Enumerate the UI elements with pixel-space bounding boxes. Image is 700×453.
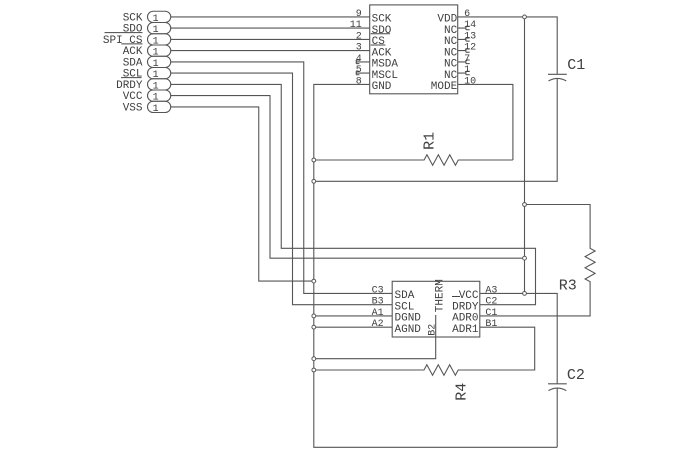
svg-text:NC: NC <box>444 36 458 48</box>
svg-text:NC: NC <box>444 47 458 59</box>
svg-text:SCL: SCL <box>395 301 415 313</box>
svg-text:MODE: MODE <box>431 81 458 93</box>
svg-text:10: 10 <box>464 76 476 87</box>
svg-text:NC: NC <box>444 25 458 37</box>
svg-text:13: 13 <box>464 31 476 42</box>
svg-text:GND: GND <box>372 81 392 93</box>
svg-text:C2: C2 <box>567 367 585 384</box>
svg-text:ACK: ACK <box>372 47 392 59</box>
svg-text:1: 1 <box>153 48 159 59</box>
svg-text:MSDA: MSDA <box>372 59 399 71</box>
svg-text:B3: B3 <box>372 297 384 308</box>
svg-text:C2: C2 <box>485 297 497 308</box>
svg-text:SCL: SCL <box>123 69 143 81</box>
svg-text:VSS: VSS <box>123 103 143 115</box>
svg-text:B1: B1 <box>485 319 497 330</box>
svg-text:6: 6 <box>464 9 470 20</box>
svg-text:A3: A3 <box>485 285 497 296</box>
svg-text:3: 3 <box>356 43 362 54</box>
svg-text:AGND: AGND <box>395 324 422 336</box>
svg-text:ADR0: ADR0 <box>452 313 478 325</box>
svg-text:R3: R3 <box>559 277 577 294</box>
svg-text:5: 5 <box>356 65 362 76</box>
svg-text:A2: A2 <box>372 319 384 330</box>
svg-text:4: 4 <box>356 54 362 65</box>
svg-text:R1: R1 <box>422 132 439 150</box>
svg-text:1: 1 <box>464 65 470 76</box>
svg-text:SCK: SCK <box>372 14 392 26</box>
svg-text:DGND: DGND <box>395 313 422 325</box>
svg-text:A1: A1 <box>372 308 384 319</box>
svg-text:1: 1 <box>153 104 159 115</box>
svg-text:VCC: VCC <box>123 91 143 103</box>
svg-text:THERM: THERM <box>435 279 447 312</box>
svg-text:MSCL: MSCL <box>372 70 398 82</box>
svg-text:C3: C3 <box>372 285 384 296</box>
svg-text:9: 9 <box>356 9 362 20</box>
svg-text:8: 8 <box>356 76 362 87</box>
svg-text:7: 7 <box>464 54 470 65</box>
svg-text:1: 1 <box>153 25 159 36</box>
svg-text:DRDY: DRDY <box>116 80 143 92</box>
svg-text:SDA: SDA <box>123 58 143 70</box>
svg-text:1: 1 <box>153 93 159 104</box>
svg-text:R4: R4 <box>454 383 471 401</box>
svg-text:1: 1 <box>153 81 159 92</box>
svg-text:VDD: VDD <box>437 14 457 26</box>
svg-text:B2: B2 <box>428 324 439 336</box>
svg-text:14: 14 <box>464 20 476 31</box>
svg-text:CS: CS <box>372 36 386 48</box>
svg-text:11: 11 <box>350 20 362 31</box>
svg-text:SCK: SCK <box>123 13 143 25</box>
svg-text:C1: C1 <box>567 57 585 74</box>
svg-text:DRDY: DRDY <box>452 301 479 313</box>
svg-text:C1: C1 <box>485 308 497 319</box>
svg-text:SPI_CS: SPI_CS <box>103 35 143 47</box>
svg-text:1: 1 <box>153 14 159 25</box>
svg-text:1: 1 <box>153 36 159 47</box>
svg-text:1: 1 <box>153 70 159 81</box>
svg-text:NC: NC <box>444 70 458 82</box>
svg-text:NC: NC <box>444 59 458 71</box>
svg-text:ADR1: ADR1 <box>452 324 479 336</box>
svg-text:ACK: ACK <box>123 46 143 58</box>
svg-text:SDO: SDO <box>372 25 392 37</box>
svg-text:SDA: SDA <box>395 290 415 302</box>
svg-text:2: 2 <box>356 31 362 42</box>
svg-text:VCC: VCC <box>459 290 479 302</box>
svg-text:12: 12 <box>464 43 476 54</box>
svg-text:1: 1 <box>153 59 159 70</box>
svg-text:SDO: SDO <box>123 24 143 36</box>
